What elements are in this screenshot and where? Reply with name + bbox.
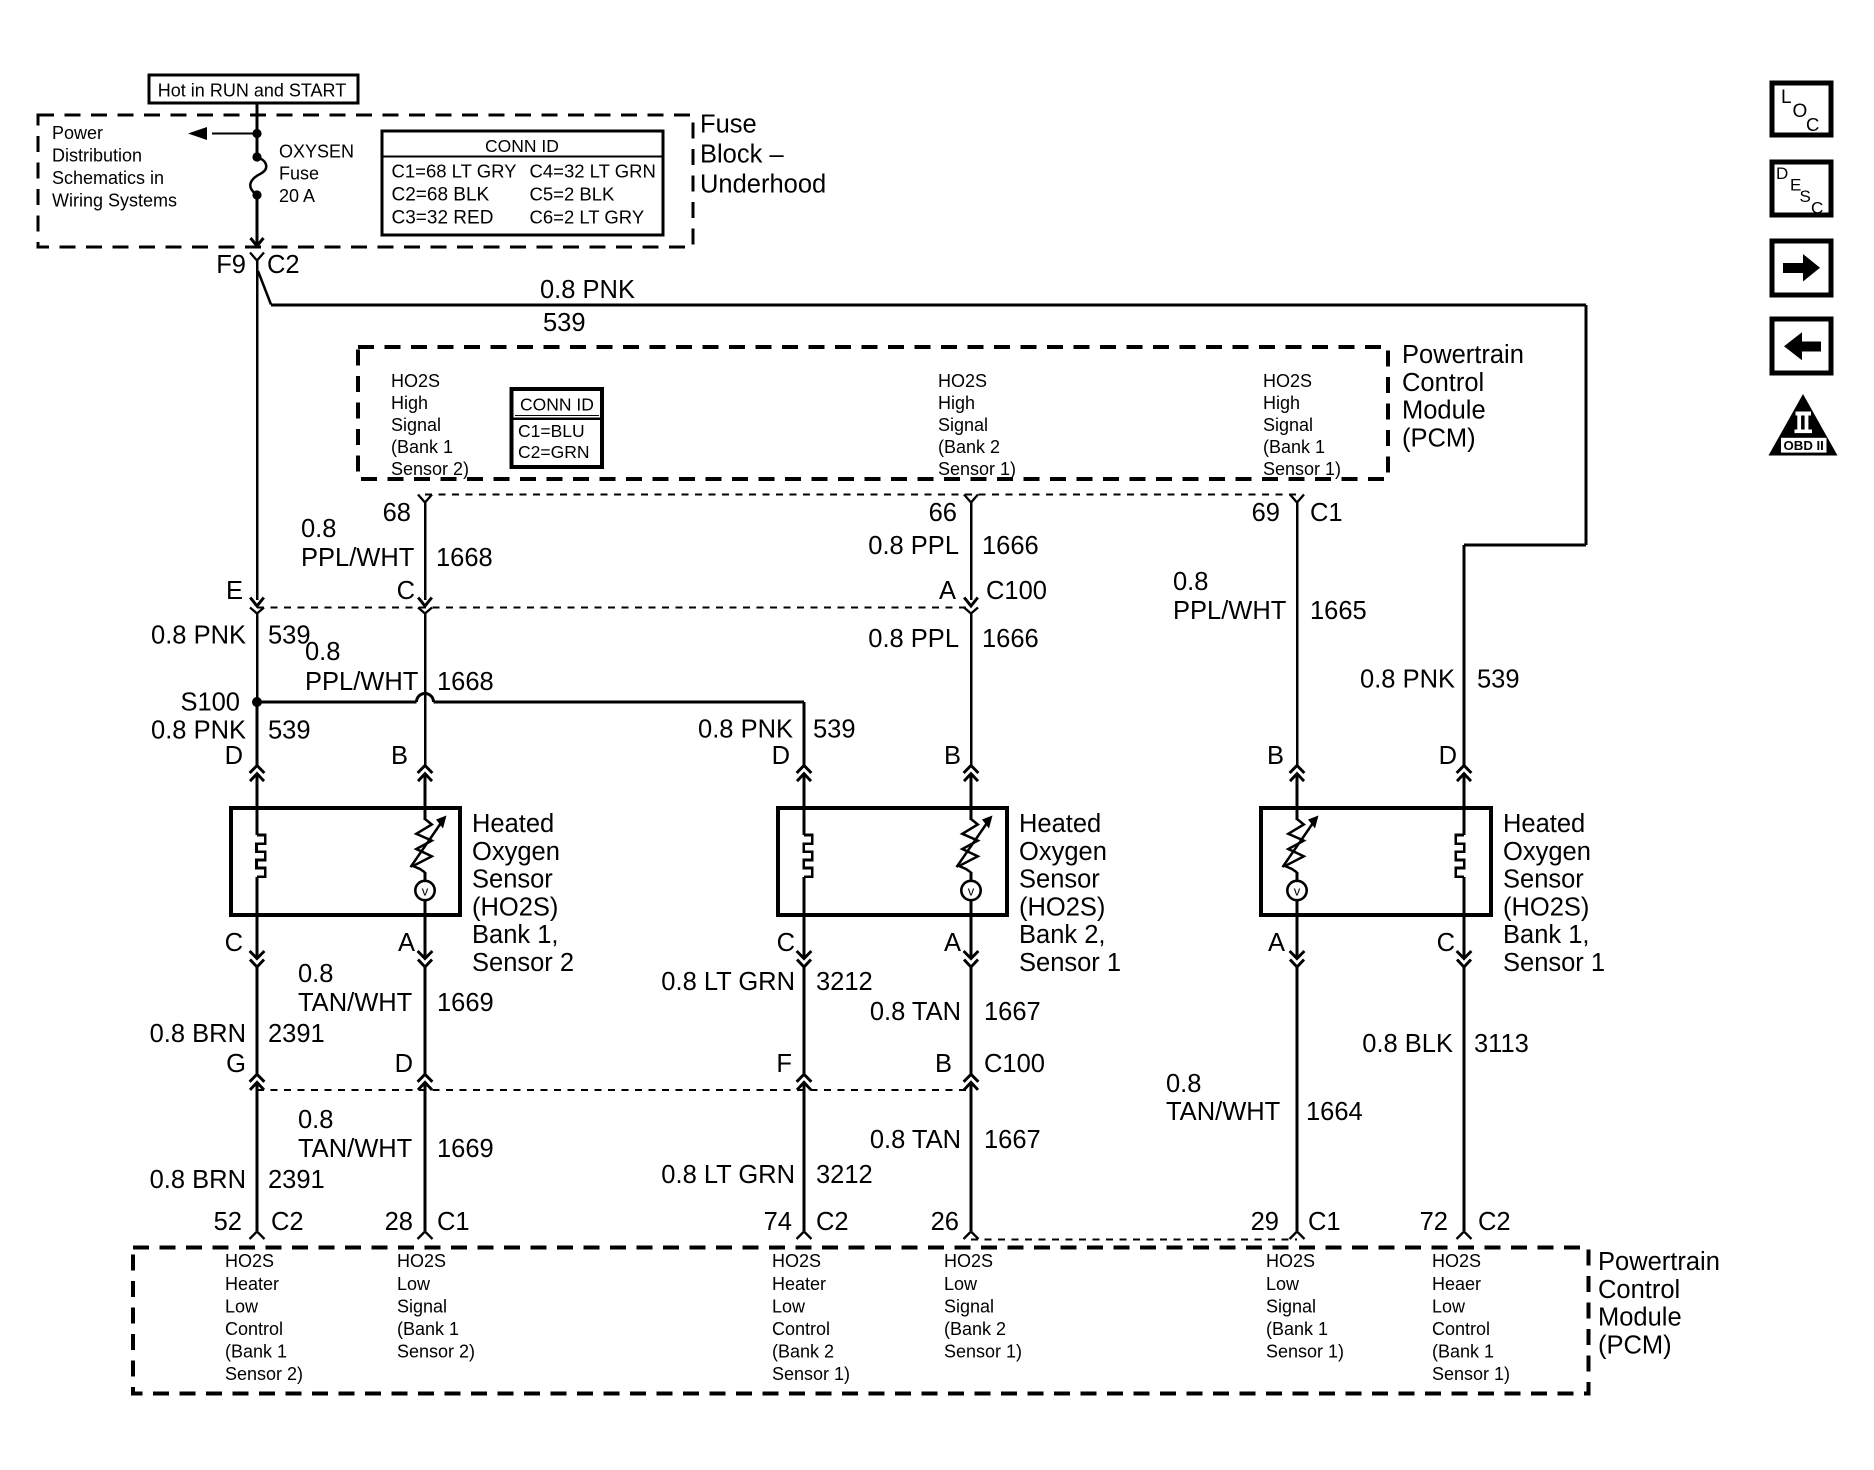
svg-text:C1: C1: [1308, 1208, 1341, 1236]
svg-text:(HO2S): (HO2S): [1503, 893, 1589, 921]
connector C below sensor3: [1457, 951, 1472, 959]
svg-text:0.8 TAN: 0.8 TAN: [870, 998, 961, 1026]
connector D sensor2: [797, 766, 812, 774]
svg-text:0.8 LT GRN: 0.8 LT GRN: [661, 1161, 795, 1189]
svg-text:L: L: [1781, 87, 1792, 108]
svg-text:Sensor 1): Sensor 1): [1263, 459, 1341, 479]
left arrow icon: [1772, 319, 1831, 373]
svg-text:0.8 BRN: 0.8 BRN: [150, 1166, 246, 1194]
svg-text:2391: 2391: [268, 1020, 325, 1048]
wire below C100 to PCM: [255, 1082, 258, 1231]
svg-text:F: F: [776, 1050, 792, 1078]
wire below S100: [255, 700, 258, 766]
sensing element sensor2: [959, 819, 978, 873]
svg-text:1668: 1668: [437, 668, 494, 696]
heated oxygen sensor box 1: [231, 808, 460, 915]
svg-text:OXYSEN: OXYSEN: [279, 142, 354, 162]
heater element sensor3: [1456, 835, 1465, 877]
svg-text:Signal: Signal: [944, 1296, 994, 1316]
connector D sensor1: [250, 766, 265, 774]
svg-text:Heated: Heated: [472, 810, 554, 838]
svg-text:Oxygen: Oxygen: [472, 838, 560, 866]
svg-text:A: A: [398, 929, 415, 957]
svg-text:HO2S: HO2S: [397, 1251, 446, 1271]
connector F9 C2: [250, 253, 264, 261]
svg-text:Fuse: Fuse: [279, 164, 319, 184]
svg-text:A: A: [939, 577, 956, 605]
svg-text:Sensor 1): Sensor 1): [1266, 1342, 1344, 1362]
PCM bottom dashed box: [133, 1248, 1589, 1394]
svg-text:C6=2 LT GRY: C6=2 LT GRY: [530, 207, 645, 228]
PCM top dashed box: [358, 347, 1388, 479]
svg-text:Heater: Heater: [225, 1274, 279, 1294]
svg-text:0.8 BLK: 0.8 BLK: [1362, 1030, 1453, 1058]
svg-text:v: v: [1294, 884, 1301, 899]
svg-text:Sensor: Sensor: [1019, 866, 1100, 894]
sensing element sensor1: [413, 819, 432, 873]
svg-text:Low: Low: [772, 1296, 806, 1316]
svg-text:Control: Control: [1432, 1319, 1490, 1339]
connector C below sensor2: [797, 951, 812, 959]
svg-text:72: 72: [1420, 1208, 1448, 1236]
wire down to PCM: [969, 967, 972, 1076]
svg-text:(Bank 1: (Bank 1: [391, 437, 453, 457]
wire below C100 to PCM: [969, 1082, 972, 1231]
wire below C100 to PCM: [423, 1082, 426, 1231]
wire S100 branch right segment: [434, 700, 805, 703]
svg-text:Sensor 2): Sensor 2): [225, 1364, 303, 1384]
svg-text:Control: Control: [225, 1319, 283, 1339]
svg-text:C: C: [1811, 199, 1823, 218]
svg-text:C: C: [1437, 929, 1455, 957]
connector pin 52 C2: [250, 1232, 265, 1240]
svg-text:0.8 PPL: 0.8 PPL: [868, 625, 959, 653]
svg-text:Control: Control: [1598, 1276, 1680, 1304]
svg-text:HO2S: HO2S: [1432, 1251, 1481, 1271]
wire fuse top: [255, 103, 258, 158]
wire fuse bottom: [255, 195, 258, 238]
svg-text:(Bank 1: (Bank 1: [225, 1342, 287, 1362]
svg-text:PPL/WHT: PPL/WHT: [305, 668, 418, 696]
wire down to PCM: [1295, 967, 1298, 1232]
svg-text:TAN/WHT: TAN/WHT: [298, 989, 412, 1017]
svg-text:(Bank 1: (Bank 1: [1266, 1319, 1328, 1339]
svg-text:G: G: [226, 1050, 246, 1078]
svg-text:HO2S: HO2S: [938, 371, 987, 391]
svg-text:Bank 1,: Bank 1,: [472, 921, 558, 949]
svg-text:1666: 1666: [982, 532, 1039, 560]
svg-text:1666: 1666: [982, 625, 1039, 653]
wire 1666 lower: [970, 613, 973, 765]
connector C100 lower dashed line: [257, 1089, 971, 1091]
wire 1666 upper: [970, 503, 973, 601]
wire hop over 1668: [417, 694, 434, 703]
svg-text:Sensor 1): Sensor 1): [1432, 1364, 1510, 1384]
wire below C100 to PCM: [802, 1082, 805, 1231]
svg-text:Sensor 2: Sensor 2: [472, 949, 574, 977]
svg-text:Low: Low: [225, 1296, 259, 1316]
connector pin 66: [964, 495, 978, 503]
wire 0.8 PNK 539 left vertical: [256, 261, 259, 601]
svg-text:Signal: Signal: [938, 415, 988, 435]
connector E at C100: [250, 598, 264, 607]
CONN ID table underhood: [382, 131, 663, 235]
svg-text:3113: 3113: [1474, 1030, 1529, 1058]
svg-text:0.8 PNK: 0.8 PNK: [151, 717, 246, 745]
svg-text:Hot in RUN and START: Hot in RUN and START: [158, 81, 346, 101]
connector C at C100: [418, 598, 432, 607]
svg-text:(Bank 2: (Bank 2: [938, 437, 1000, 457]
svg-text:High: High: [1263, 393, 1300, 413]
connector pin 29 C1: [1290, 1232, 1305, 1240]
svg-text:74: 74: [764, 1208, 792, 1236]
wire down to PCM: [802, 967, 805, 1076]
svg-text:TAN/WHT: TAN/WHT: [1166, 1098, 1280, 1126]
svg-text:66: 66: [929, 499, 957, 527]
svg-text:High: High: [938, 393, 975, 413]
svg-text:29: 29: [1251, 1208, 1279, 1236]
Hot in RUN and START box: [149, 75, 358, 103]
svg-text:OBD II: OBD II: [1784, 438, 1824, 453]
svg-text:B: B: [944, 742, 961, 770]
svg-text:0.8 LT GRN: 0.8 LT GRN: [661, 968, 795, 996]
svg-text:0.8: 0.8: [298, 1106, 333, 1134]
wire out of sensor box: [255, 915, 258, 951]
connector A below sensor1: [418, 951, 433, 959]
svg-text:CONN ID: CONN ID: [485, 136, 559, 156]
svg-text:C: C: [1806, 114, 1819, 135]
wire down to PCM: [1462, 967, 1465, 1232]
svg-text:C1=BLU: C1=BLU: [518, 421, 585, 441]
svg-text:C4=32 LT GRN: C4=32 LT GRN: [530, 161, 656, 182]
svg-text:F9: F9: [216, 251, 246, 279]
svg-text:C1: C1: [437, 1208, 470, 1236]
svg-text:HO2S: HO2S: [772, 1251, 821, 1271]
wire out of sensor box: [802, 915, 805, 951]
PCM CONN ID box: [512, 389, 603, 467]
svg-text:Power: Power: [52, 123, 103, 143]
svg-text:0.8 TAN: 0.8 TAN: [870, 1126, 961, 1154]
svg-text:D: D: [225, 742, 243, 770]
wire S100 branch left segment: [257, 700, 417, 703]
svg-text:Module: Module: [1402, 397, 1486, 425]
svg-text:Heated: Heated: [1019, 810, 1101, 838]
svg-text:539: 539: [1477, 666, 1520, 694]
svg-text:D: D: [1439, 742, 1457, 770]
svg-text:Low: Low: [1432, 1296, 1466, 1316]
svg-text:CONN ID: CONN ID: [520, 395, 594, 415]
svg-text:B: B: [391, 742, 408, 770]
svg-text:Low: Low: [397, 1274, 431, 1294]
connector B sensor1: [418, 766, 433, 774]
wire out of sensor box: [1295, 915, 1298, 951]
svg-text:Powertrain: Powertrain: [1402, 341, 1524, 369]
svg-text:(Bank 1: (Bank 1: [1263, 437, 1325, 457]
svg-text:C1=68 LT GRY: C1=68 LT GRY: [392, 161, 517, 182]
svg-text:(Bank 1: (Bank 1: [1432, 1342, 1494, 1362]
svg-text:Sensor: Sensor: [472, 866, 553, 894]
svg-text:0.8: 0.8: [1166, 1070, 1201, 1098]
svg-text:TAN/WHT: TAN/WHT: [298, 1135, 412, 1163]
fuse OXYSEN 20A element: [250, 157, 266, 195]
connector F at C100: [797, 1074, 812, 1082]
svg-text:Oxygen: Oxygen: [1019, 838, 1107, 866]
wire out of sensor box: [423, 915, 426, 951]
connector A at C100: [964, 598, 978, 607]
svg-text:C2: C2: [1478, 1208, 1511, 1236]
wire into sensor box: [255, 774, 258, 810]
svg-text:(HO2S): (HO2S): [472, 893, 558, 921]
svg-text:3212: 3212: [816, 968, 873, 996]
svg-text:3212: 3212: [816, 1161, 873, 1189]
svg-text:1667: 1667: [984, 998, 1041, 1026]
svg-text:28: 28: [385, 1208, 413, 1236]
svg-text:1664: 1664: [1306, 1098, 1363, 1126]
connector C below sensor1: [250, 951, 265, 959]
svg-text:0.8: 0.8: [298, 960, 333, 988]
wire into sensor box: [802, 774, 805, 810]
svg-text:Powertrain: Powertrain: [1598, 1248, 1720, 1276]
svg-text:Sensor 1): Sensor 1): [772, 1364, 850, 1384]
svg-text:Block –: Block –: [700, 141, 784, 169]
arrow left: [188, 127, 207, 140]
svg-text:Sensor 1: Sensor 1: [1503, 949, 1605, 977]
svg-text:HO2S: HO2S: [944, 1251, 993, 1271]
heater element sensor2: [804, 835, 813, 877]
svg-text:C100: C100: [986, 577, 1047, 605]
svg-text:Low: Low: [944, 1274, 978, 1294]
arrow down into fuse block edge: [251, 238, 264, 246]
svg-text:Distribution: Distribution: [52, 146, 142, 166]
wire right horizontal to D: [1464, 543, 1586, 546]
connector G at C100: [250, 1074, 265, 1082]
wire into sensor box: [1462, 774, 1465, 810]
fuse block dashed box: [38, 115, 693, 247]
wire 1668 lower: [424, 613, 427, 765]
svg-text:Heated: Heated: [1503, 810, 1585, 838]
svg-text:D: D: [772, 742, 790, 770]
svg-text:20 A: 20 A: [279, 186, 315, 206]
svg-text:Signal: Signal: [1263, 415, 1313, 435]
svg-text:C: C: [397, 577, 415, 605]
connector pin 68: [418, 495, 432, 503]
svg-text:Sensor 1): Sensor 1): [944, 1342, 1022, 1362]
junction dot: [252, 129, 261, 138]
svg-text:Sensor 2): Sensor 2): [391, 459, 469, 479]
svg-text:Heater: Heater: [772, 1274, 826, 1294]
svg-text:PPL/WHT: PPL/WHT: [301, 544, 414, 572]
svg-text:1667: 1667: [984, 1126, 1041, 1154]
svg-text:2391: 2391: [268, 1166, 325, 1194]
svg-text:0.8: 0.8: [1173, 568, 1208, 596]
svg-text:(Bank 1: (Bank 1: [397, 1319, 459, 1339]
svg-text:High: High: [391, 393, 428, 413]
svg-text:Signal: Signal: [1266, 1296, 1316, 1316]
svg-text:Sensor 1): Sensor 1): [938, 459, 1016, 479]
svg-text:S100: S100: [180, 689, 240, 717]
svg-text:(Bank 2: (Bank 2: [944, 1319, 1006, 1339]
wire diagonal branch: [258, 271, 271, 305]
wire out of sensor box: [969, 915, 972, 951]
svg-text:69: 69: [1252, 499, 1280, 527]
svg-text:C2: C2: [271, 1208, 304, 1236]
wire 539 below C100: [256, 613, 259, 700]
wire down to PCM: [255, 967, 258, 1076]
connector B sensor2: [964, 766, 979, 774]
svg-text:Sensor: Sensor: [1503, 866, 1584, 894]
svg-text:Underhood: Underhood: [700, 171, 826, 199]
svg-text:HO2S: HO2S: [225, 1251, 274, 1271]
svg-text:0.8 BRN: 0.8 BRN: [150, 1020, 246, 1048]
svg-text:0.8 PPL: 0.8 PPL: [868, 532, 959, 560]
fuse bottom dot: [252, 190, 261, 199]
svg-text:Oxygen: Oxygen: [1503, 838, 1591, 866]
heater element sensor1: [257, 835, 266, 877]
connector B sensor3: [1290, 766, 1305, 774]
svg-text:0.8 PNK: 0.8 PNK: [151, 622, 246, 650]
svg-text:Wiring Systems: Wiring Systems: [52, 191, 177, 211]
svg-text:539: 539: [268, 717, 311, 745]
svg-text:HO2S: HO2S: [391, 371, 440, 391]
DESC icon: [1772, 162, 1831, 215]
svg-text:B: B: [935, 1050, 952, 1078]
svg-text:C: C: [225, 929, 243, 957]
svg-text:1669: 1669: [437, 989, 494, 1017]
svg-text:0.8 PNK: 0.8 PNK: [1360, 666, 1455, 694]
svg-text:A: A: [944, 929, 961, 957]
svg-text:E: E: [226, 577, 243, 605]
LOC icon: [1772, 83, 1831, 135]
connector A below sensor2: [964, 951, 979, 959]
OBD II icon: [1769, 394, 1838, 456]
connector C1 dashed link line: [971, 1239, 1297, 1241]
svg-text:HO2S: HO2S: [1266, 1251, 1315, 1271]
svg-text:C: C: [777, 929, 795, 957]
svg-text:Low: Low: [1266, 1274, 1300, 1294]
svg-text:Module: Module: [1598, 1304, 1682, 1332]
svg-text:0.8 PNK: 0.8 PNK: [540, 276, 635, 304]
svg-text:HO2S: HO2S: [1263, 371, 1312, 391]
svg-text:Signal: Signal: [391, 415, 441, 435]
svg-text:Sensor 2): Sensor 2): [397, 1342, 475, 1362]
svg-text:C3=32 RED: C3=32 RED: [392, 208, 494, 229]
svg-text:Control: Control: [1402, 369, 1484, 397]
right arrow icon: [1772, 241, 1831, 295]
wire down to D sensor3: [1462, 545, 1465, 765]
connector pin 72 C2: [1457, 1232, 1472, 1240]
connector pin 26: [964, 1232, 979, 1240]
svg-text:C5=2 BLK: C5=2 BLK: [530, 184, 616, 205]
svg-text:539: 539: [543, 309, 586, 337]
svg-text:Fuse: Fuse: [700, 111, 757, 139]
fuse top dot: [252, 152, 261, 161]
wire 1665 vertical: [1296, 503, 1299, 766]
svg-text:C2=68 BLK: C2=68 BLK: [392, 185, 490, 206]
sensing element sensor3: [1285, 819, 1304, 873]
heated oxygen sensor box 2: [778, 808, 1007, 915]
connector D sensor3: [1457, 766, 1472, 774]
svg-text:C2: C2: [267, 251, 300, 279]
svg-text:v: v: [422, 884, 429, 899]
svg-text:Bank 1,: Bank 1,: [1503, 921, 1589, 949]
wire 1668 upper: [424, 503, 427, 601]
svg-text:26: 26: [931, 1208, 959, 1236]
svg-text:(PCM): (PCM): [1598, 1331, 1672, 1359]
connector pin 28 C1: [418, 1232, 433, 1240]
svg-text:C100: C100: [984, 1050, 1045, 1078]
svg-text:Sensor 1: Sensor 1: [1019, 949, 1121, 977]
connector B at C100: [964, 1074, 979, 1082]
wire into sensor box: [423, 774, 426, 810]
svg-text:52: 52: [214, 1208, 242, 1236]
svg-text:1668: 1668: [436, 544, 493, 572]
svg-text:(PCM): (PCM): [1402, 424, 1476, 452]
svg-text:0.8: 0.8: [305, 638, 340, 666]
svg-text:D: D: [1776, 164, 1788, 183]
svg-text:C1: C1: [1310, 499, 1343, 527]
PCM connector dashed line (top): [425, 494, 1297, 496]
wire branch down to D sensor2: [802, 702, 805, 765]
svg-text:C2=GRN: C2=GRN: [518, 442, 589, 462]
svg-text:Heaer: Heaer: [1432, 1274, 1481, 1294]
svg-text:(HO2S): (HO2S): [1019, 893, 1105, 921]
wire 0.8 PNK top horizontal: [271, 303, 1586, 306]
svg-text:1669: 1669: [437, 1135, 494, 1163]
wire into sensor box: [1295, 774, 1298, 810]
svg-text:0.8 PNK: 0.8 PNK: [698, 716, 793, 744]
connector C100 dashed line: [257, 607, 971, 609]
svg-text:539: 539: [813, 716, 856, 744]
svg-text:Control: Control: [772, 1319, 830, 1339]
wire down to PCM: [423, 967, 426, 1076]
svg-text:PPL/WHT: PPL/WHT: [1173, 597, 1286, 625]
connector D at C100: [418, 1074, 433, 1082]
svg-text:A: A: [1268, 929, 1285, 957]
heated oxygen sensor box 3: [1261, 808, 1491, 915]
svg-text:Signal: Signal: [397, 1296, 447, 1316]
svg-text:0.8: 0.8: [301, 515, 336, 543]
svg-text:(Bank 2: (Bank 2: [772, 1342, 834, 1362]
svg-text:v: v: [968, 884, 975, 899]
wire arrow branch: [212, 132, 257, 134]
svg-text:1665: 1665: [1310, 597, 1367, 625]
svg-text:C2: C2: [816, 1208, 849, 1236]
svg-text:Schematics in: Schematics in: [52, 168, 164, 188]
svg-text:D: D: [395, 1050, 413, 1078]
svg-text:Bank 2,: Bank 2,: [1019, 921, 1105, 949]
connector pin 74 C2: [797, 1232, 812, 1240]
connector pin 69 C1: [1290, 495, 1304, 503]
wire into sensor box: [969, 774, 972, 810]
svg-text:68: 68: [383, 499, 411, 527]
connector A below sensor3: [1290, 951, 1305, 959]
wire right vertical: [1584, 305, 1587, 545]
wire out of sensor box: [1462, 915, 1465, 951]
svg-text:S: S: [1800, 187, 1811, 206]
svg-text:B: B: [1267, 742, 1284, 770]
